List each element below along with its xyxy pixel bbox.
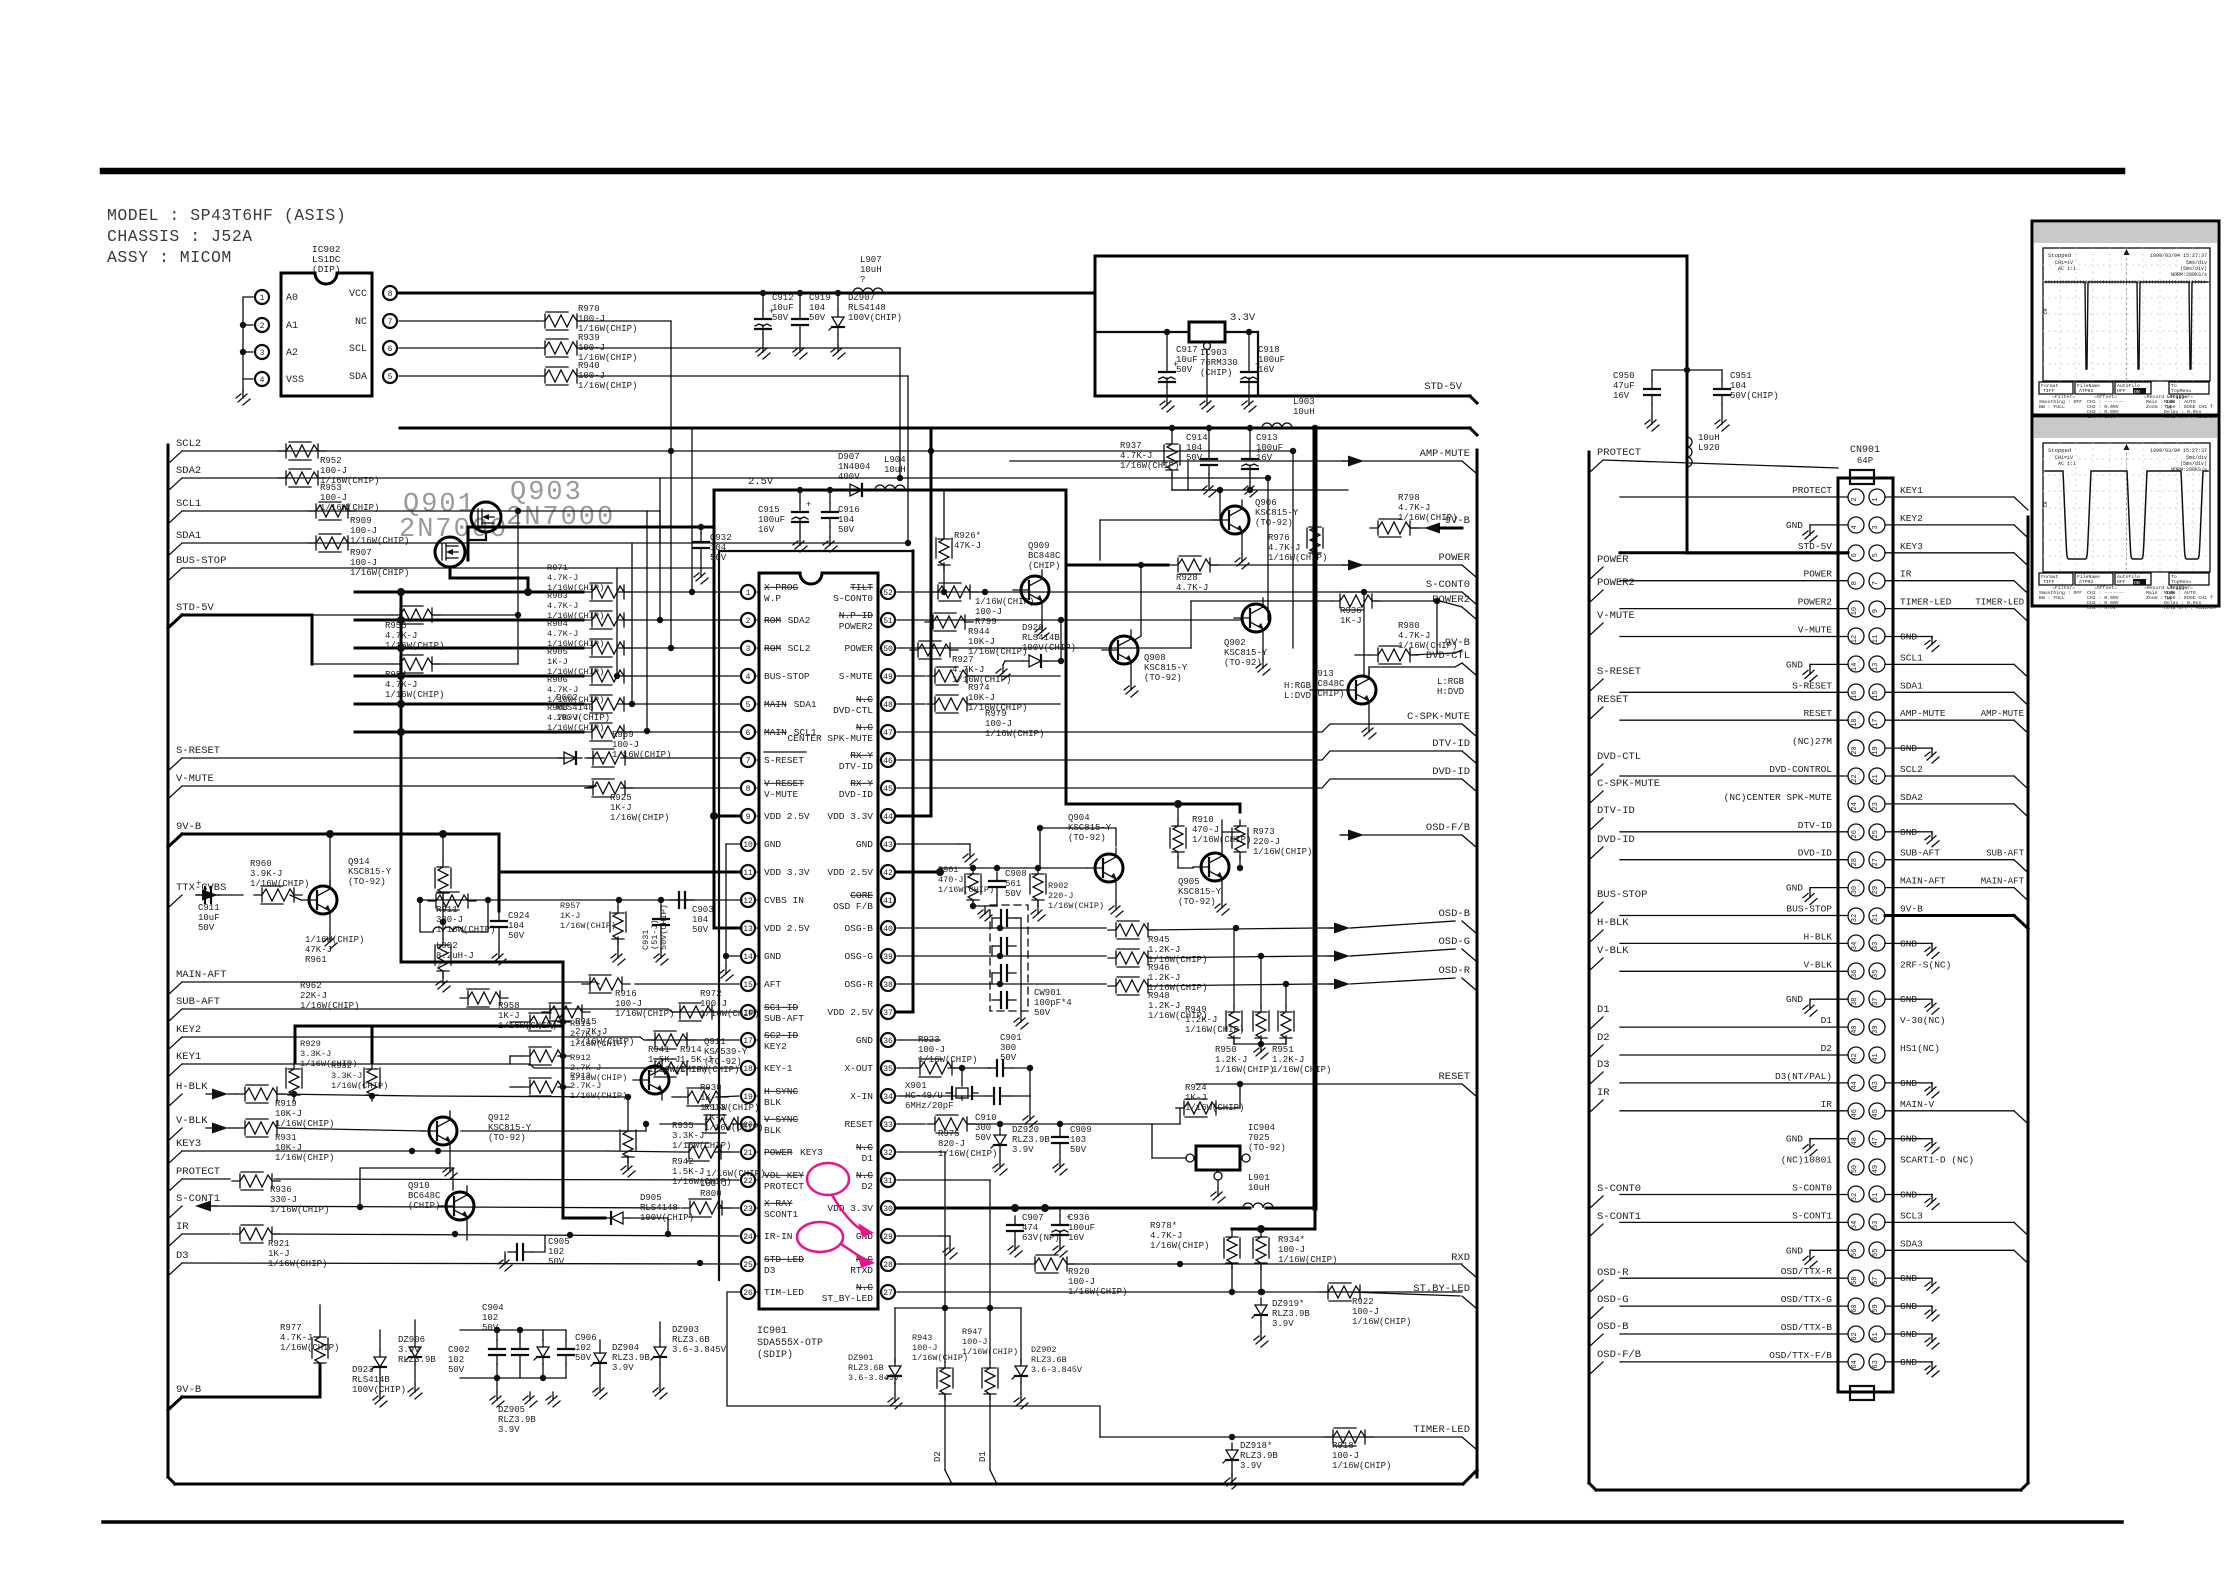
svg-text:Q912: Q912 xyxy=(488,1113,510,1123)
wire bottom frame xyxy=(175,1483,1463,1486)
svg-text:1N4004: 1N4004 xyxy=(838,462,870,472)
svg-text:16V: 16V xyxy=(1258,365,1275,375)
wire D905 feed (thick) xyxy=(563,1217,605,1220)
svg-text:1.2K-J: 1.2K-J xyxy=(1148,973,1180,983)
svg-text:1K-J: 1K-J xyxy=(700,1093,722,1103)
svg-text:BW : FULL: BW : FULL xyxy=(2039,595,2065,601)
ground C914 xyxy=(1208,482,1210,490)
wire pin49 S-MUTE xyxy=(897,675,925,677)
node BUS-STOP (left bus entry) xyxy=(168,568,182,581)
svg-text:R902: R902 xyxy=(1048,881,1068,891)
svg-text:GND: GND xyxy=(1786,659,1803,670)
node DVD-ID (bus2 entry) xyxy=(1589,847,1603,860)
svg-text:R945: R945 xyxy=(1148,935,1170,945)
svg-text:3.3V: 3.3V xyxy=(1230,312,1256,324)
resistor R938 xyxy=(1332,594,1380,608)
svg-text:100-J: 100-J xyxy=(350,526,377,536)
svg-text:DVD-ID: DVD-ID xyxy=(1432,766,1470,778)
svg-text:C936: C936 xyxy=(1068,1213,1090,1223)
capacitor C906 xyxy=(565,1340,567,1349)
svg-text:63: 63 xyxy=(1872,1360,1880,1368)
ground pin14 xyxy=(725,966,727,974)
svg-text:DZ904: DZ904 xyxy=(612,1343,639,1353)
svg-text:DVD-CTL: DVD-CTL xyxy=(1597,751,1641,763)
IC902 pin 8 xyxy=(383,286,397,300)
svg-text:R955: R955 xyxy=(385,621,407,631)
svg-text:KEY1: KEY1 xyxy=(176,1051,201,1063)
svg-text:3.9V: 3.9V xyxy=(498,1425,520,1435)
svg-text:1/16W(CHIP): 1/16W(CHIP) xyxy=(912,1353,968,1363)
ground DZ919 xyxy=(1260,1332,1262,1340)
svg-text:9V-B: 9V-B xyxy=(176,821,201,833)
svg-text:17: 17 xyxy=(743,1037,753,1046)
capacitor C907 xyxy=(1014,1216,1016,1225)
capacitor C908 xyxy=(996,872,998,881)
svg-text:ATP02: ATP02 xyxy=(2079,388,2094,394)
svg-text:50: 50 xyxy=(1851,1165,1859,1173)
node SDA1 (left bus entry) xyxy=(168,543,182,556)
svg-text:R978*: R978* xyxy=(1150,1221,1177,1231)
svg-text:50V: 50V xyxy=(548,1257,565,1267)
resistor R799 xyxy=(930,585,978,599)
resistor R974 xyxy=(927,669,975,683)
svg-text:9V-B: 9V-B xyxy=(176,1384,201,1396)
CN901 pin 46/45 row (IR / MAIN-V) xyxy=(1848,1103,1864,1119)
ground Q908 xyxy=(1130,682,1132,690)
svg-text:47: 47 xyxy=(1872,1137,1880,1145)
wire CN901 SUB-AFT xyxy=(1885,859,2014,861)
svg-text:C905: C905 xyxy=(548,1237,570,1247)
svg-text:Stopped: Stopped xyxy=(2048,447,2071,454)
IC901 pin 8 (V-MUTE) xyxy=(741,781,755,795)
svg-text:A1: A1 xyxy=(286,321,298,332)
svg-text:13: 13 xyxy=(743,925,753,934)
svg-text:R901: R901 xyxy=(938,865,958,875)
svg-text:DTV-ID: DTV-ID xyxy=(1798,820,1833,831)
resistor R927 xyxy=(910,643,958,657)
wire AMP-MUTE xyxy=(1010,460,1462,462)
svg-text:L901: L901 xyxy=(1248,1173,1270,1183)
zener DZ904 xyxy=(599,1346,601,1353)
svg-text:Q910: Q910 xyxy=(408,1181,430,1191)
svg-text:SC2-ID: SC2-ID xyxy=(764,1030,799,1041)
wire CN901 POWER2 xyxy=(1620,608,1848,610)
svg-text:A0: A0 xyxy=(286,293,298,304)
svg-text:50V: 50V xyxy=(1034,1008,1051,1018)
node D3 (left bus entry) xyxy=(168,1263,182,1276)
svg-text:1: 1 xyxy=(1872,497,1880,501)
svg-text:N.C: N.C xyxy=(856,722,873,733)
svg-text:1/16W(CHIP): 1/16W(CHIP) xyxy=(610,813,669,823)
svg-text:SDA1: SDA1 xyxy=(176,530,201,542)
capacitor C902 xyxy=(519,1340,521,1349)
wire CN901 OSD/TTX-R xyxy=(1620,1277,1848,1279)
svg-text:49: 49 xyxy=(883,673,893,682)
wire OSD-G row xyxy=(1315,955,1334,957)
svg-text:R948: R948 xyxy=(1148,991,1170,1001)
svg-text:OFF: OFF xyxy=(2117,579,2126,585)
svg-text:SDA1: SDA1 xyxy=(1900,680,1923,691)
svg-text:37: 37 xyxy=(883,1009,893,1018)
wire STD-5V branch (thick) xyxy=(182,614,312,617)
svg-text:RLS414B: RLS414B xyxy=(352,1375,390,1385)
svg-text:26: 26 xyxy=(1851,830,1859,838)
wire V-MUTE xyxy=(182,785,596,787)
svg-text:R903: R903 xyxy=(547,591,568,601)
svg-text:C908: C908 xyxy=(1005,869,1027,879)
node S-CONT0 (bus2 entry) xyxy=(1589,1196,1603,1209)
transistor Q904 xyxy=(1095,854,1123,882)
svg-text:3: 3 xyxy=(260,349,265,358)
wire pin29 GND xyxy=(897,1235,940,1237)
svg-text:OSD-B: OSD-B xyxy=(1438,908,1470,920)
svg-text:MAIN-AFT: MAIN-AFT xyxy=(176,969,226,981)
svg-text:R949: R949 xyxy=(1185,1005,1207,1015)
svg-text:561: 561 xyxy=(1005,879,1021,889)
svg-text:16V: 16V xyxy=(758,525,775,535)
svg-text:R944: R944 xyxy=(968,627,990,637)
svg-text:BC648C: BC648C xyxy=(408,1191,441,1201)
resistor R905 and pin4 stub xyxy=(355,675,583,678)
resistor R955 xyxy=(392,608,440,622)
svg-text:100-J: 100-J xyxy=(612,740,639,750)
wire cap cluster top xyxy=(460,1329,566,1331)
svg-text:?: ? xyxy=(860,275,865,285)
svg-text:1999/03/04 15:27:37: 1999/03/04 15:27:37 xyxy=(2150,448,2207,454)
svg-text:H:RGB: H:RGB xyxy=(1284,681,1312,691)
svg-text:POWER2: POWER2 xyxy=(839,621,874,632)
svg-text:KSC815-Y: KSC815-Y xyxy=(1178,887,1222,897)
svg-text:3: 3 xyxy=(746,645,751,654)
waveform scope1 (narrow spikes) xyxy=(2045,282,2208,369)
svg-text:R953: R953 xyxy=(320,483,342,493)
svg-text:KSA539-Y: KSA539-Y xyxy=(704,1047,748,1057)
svg-text:59: 59 xyxy=(1872,1304,1880,1312)
svg-text:MAIN-AFT: MAIN-AFT xyxy=(1900,876,1946,887)
ground CN901 left xyxy=(1810,998,1848,1000)
svg-text:R800: R800 xyxy=(700,1189,722,1199)
svg-text:9V-B: 9V-B xyxy=(1445,515,1470,527)
svg-text:R920: R920 xyxy=(1068,1267,1090,1277)
svg-text:OFF: OFF xyxy=(2117,388,2126,394)
svg-text:VDD 2.5V: VDD 2.5V xyxy=(827,1007,873,1018)
svg-text:50V: 50V xyxy=(1070,1145,1087,1155)
svg-text:1/16W(CHIP): 1/16W(CHIP) xyxy=(938,1149,997,1159)
CN901 pin 50/49 row ((NC)1080i / SCART1-D (NC)) xyxy=(1848,1159,1864,1175)
ground C909 xyxy=(1059,1160,1061,1168)
svg-text:26: 26 xyxy=(743,1289,753,1298)
svg-text:24: 24 xyxy=(743,1233,753,1242)
zener DZ901 xyxy=(894,1359,896,1366)
wire CN901 POWER xyxy=(1620,580,1848,582)
wire CN901 H-BLK xyxy=(1620,942,1848,944)
svg-text:28: 28 xyxy=(1851,858,1859,866)
wire TIMER-LED xyxy=(1100,1436,1462,1438)
IC901 pin 29 (GND) xyxy=(881,1229,895,1243)
svg-text:GND: GND xyxy=(1900,994,1917,1005)
svg-text:29: 29 xyxy=(883,1233,893,1242)
node 9V-B (left bus entry) xyxy=(168,834,182,847)
transistor Q903 (2N7000 FET) xyxy=(471,502,501,532)
IC901 pin 27 (ST_BY-LED) xyxy=(881,1285,895,1299)
ground CN901 left xyxy=(1810,887,1848,889)
svg-text:7: 7 xyxy=(746,757,751,766)
ground R962 xyxy=(442,977,444,985)
svg-text:GND: GND xyxy=(1786,883,1803,894)
svg-text:R969: R969 xyxy=(612,730,634,740)
svg-text:KEY3: KEY3 xyxy=(176,1138,201,1150)
svg-text:H:DVD: H:DVD xyxy=(1437,687,1464,697)
svg-text:41: 41 xyxy=(1872,1053,1880,1061)
svg-text:1/16W(CHIP): 1/16W(CHIP) xyxy=(385,690,444,700)
svg-text:(SDIP): (SDIP) xyxy=(757,1349,793,1361)
svg-text:DZ918*: DZ918* xyxy=(1240,1441,1272,1451)
svg-text:2.7K-J: 2.7K-J xyxy=(570,1029,601,1039)
svg-text:V-MUTE: V-MUTE xyxy=(1597,610,1635,622)
resistor R935 xyxy=(622,1125,634,1163)
svg-text:R905: R905 xyxy=(547,647,568,657)
svg-text:X-OUT: X-OUT xyxy=(844,1063,873,1074)
svg-text:OSD/TTX-R: OSD/TTX-R xyxy=(1781,1266,1833,1277)
svg-text:SUB-AFT: SUB-AFT xyxy=(176,996,220,1008)
svg-text:+: + xyxy=(806,500,811,510)
svg-text:50V: 50V xyxy=(838,525,855,535)
resistor R932 xyxy=(366,1063,378,1101)
resistor R941 xyxy=(647,1033,695,1047)
svg-text:8: 8 xyxy=(746,785,751,794)
svg-text:44: 44 xyxy=(883,813,893,822)
wire CN901 V-BLK xyxy=(1620,970,1848,972)
svg-text:55: 55 xyxy=(1872,1249,1880,1257)
ground C924 xyxy=(498,950,500,958)
IC902 pin 7 xyxy=(383,314,397,328)
node POWER2 (bus2 entry) xyxy=(1589,590,1603,603)
node V-BLK (left bus entry) xyxy=(168,1128,182,1141)
node KEY1 (left bus entry) xyxy=(168,1064,182,1077)
bottom border rule xyxy=(103,1520,2122,1524)
wire CN901 DVD-ID xyxy=(1620,859,1848,861)
svg-text:Q906: Q906 xyxy=(1255,498,1277,508)
wire Q905 collector xyxy=(1222,832,1240,846)
wire CN901 S-CONT1 xyxy=(1620,1221,1848,1223)
resistor R903 and pin2 stub xyxy=(355,619,583,622)
svg-text:C909: C909 xyxy=(1070,1125,1092,1135)
capacitor C917 xyxy=(1166,363,1168,372)
oscilloscope image scope1 xyxy=(2032,221,2219,415)
svg-text:S-CONT1: S-CONT1 xyxy=(1597,1211,1641,1223)
node DTV-ID (right bus exit) xyxy=(1462,751,1477,764)
svg-text:DZ920: DZ920 xyxy=(1012,1125,1039,1135)
callout arrow to pin 28 (pink) xyxy=(841,1244,862,1258)
resistor R945 xyxy=(1108,923,1156,937)
IC901 pin 18 (KEY-1) xyxy=(741,1061,755,1075)
svg-text:1/16W(CHIP): 1/16W(CHIP) xyxy=(560,921,616,931)
wire Q904 collector to R910 xyxy=(1040,828,1116,868)
svg-text:Q914: Q914 xyxy=(348,857,370,867)
resistor R933 xyxy=(680,1090,728,1104)
node RXD (right bus exit) xyxy=(1462,1265,1477,1278)
svg-text:R798: R798 xyxy=(1398,493,1420,503)
svg-text:8.2uH-J: 8.2uH-J xyxy=(436,951,474,961)
svg-text:D907: D907 xyxy=(838,452,860,462)
svg-text:Stopped: Stopped xyxy=(2048,252,2071,259)
svg-text:23: 23 xyxy=(743,1205,753,1214)
svg-text:TIFF: TIFF xyxy=(2043,388,2055,394)
svg-text:BW : FULL: BW : FULL xyxy=(2039,404,2065,410)
diode D907 xyxy=(844,489,850,491)
IC901 pin 15 (AFT) xyxy=(741,977,755,991)
svg-text:R925: R925 xyxy=(610,793,632,803)
node S-RESET (left bus entry) xyxy=(168,758,182,771)
svg-text:3.9V: 3.9V xyxy=(612,1363,634,1373)
svg-text:100pF*4: 100pF*4 xyxy=(1034,998,1072,1008)
svg-text:IR: IR xyxy=(1597,1087,1610,1099)
ground DZ902 xyxy=(1020,1394,1022,1402)
svg-text:ATP02: ATP02 xyxy=(2079,579,2094,585)
ground CN901 left xyxy=(1810,524,1848,526)
ground DZ901 xyxy=(894,1394,896,1402)
IC901 pin 33 (RESET) xyxy=(881,1117,895,1131)
svg-text:24: 24 xyxy=(1851,802,1859,810)
svg-text:3: 3 xyxy=(1872,525,1880,529)
wire pin38 OSG-R xyxy=(897,983,1106,985)
svg-text:330-J: 330-J xyxy=(436,915,463,925)
ground CN901 left xyxy=(1810,1249,1848,1251)
svg-text:1999/03/04 15:27:37: 1999/03/04 15:27:37 xyxy=(2150,253,2207,259)
svg-text:25: 25 xyxy=(743,1261,753,1270)
svg-text:KSC815-Y: KSC815-Y xyxy=(348,867,392,877)
svg-text:RLZ3.9B: RLZ3.9B xyxy=(398,1355,436,1365)
node V-MUTE (left bus entry) xyxy=(168,786,182,799)
wire pin52 S-CONT0 xyxy=(897,591,1462,593)
wire CN901 DVD-CONTROL xyxy=(1620,775,1848,777)
wire pin51 POWER2 xyxy=(897,619,1242,621)
wire 2.5V corner (thick) xyxy=(902,489,1066,492)
svg-text:R914: R914 xyxy=(680,1045,702,1055)
transistor Q901 (2N7000 FET) xyxy=(435,537,465,567)
resistor R957 xyxy=(612,907,624,945)
svg-text:(TO-92): (TO-92) xyxy=(1255,518,1293,528)
wire pin34 X-IN xyxy=(897,1095,985,1097)
node OSD-B (bus2 entry) xyxy=(1589,1334,1603,1347)
svg-text:S-CONT1: S-CONT1 xyxy=(1792,1210,1832,1221)
svg-text:4.7K-J: 4.7K-J xyxy=(385,631,417,641)
wire TIM-LED from pin26 xyxy=(727,1292,1100,1437)
svg-text:IC904: IC904 xyxy=(1248,1123,1275,1133)
svg-text:A2: A2 xyxy=(286,348,298,359)
svg-text:1/16W(CHIP): 1/16W(CHIP) xyxy=(350,536,409,546)
svg-text:1.5K-J: 1.5K-J xyxy=(648,1055,680,1065)
wire CVBS-IN net xyxy=(420,899,742,901)
svg-text:37: 37 xyxy=(1872,997,1880,1005)
svg-text:OSD/TTX-G: OSD/TTX-G xyxy=(1781,1294,1833,1305)
svg-text:45: 45 xyxy=(883,785,893,794)
svg-text:58: 58 xyxy=(1851,1276,1859,1284)
resistor R936 xyxy=(232,1174,280,1188)
svg-text:2.7K-J: 2.7K-J xyxy=(570,1081,601,1091)
capacitor C950 xyxy=(1651,380,1653,389)
node ST.BY-LED (right bus exit) xyxy=(1462,1296,1477,1309)
svg-text:R927: R927 xyxy=(952,655,974,665)
svg-text:2: 2 xyxy=(746,617,751,626)
svg-text:L907: L907 xyxy=(860,255,882,265)
svg-text:(TO-92): (TO-92) xyxy=(1178,897,1216,907)
CN901 pin 38/37 row (GND / GND) xyxy=(1848,991,1864,1007)
svg-text:R954: R954 xyxy=(385,670,407,680)
wire R973/R910 base rail xyxy=(1239,804,1242,812)
IC901 pin 28 (RTXD) xyxy=(881,1257,895,1271)
resistor R931 xyxy=(237,1121,285,1135)
svg-text:SDA: SDA xyxy=(349,372,367,383)
svg-text:L920: L920 xyxy=(1698,443,1720,453)
svg-text:V-30(NC): V-30(NC) xyxy=(1900,1015,1946,1026)
wire pin43 GND xyxy=(897,843,960,845)
svg-text:29: 29 xyxy=(1872,886,1880,894)
svg-text:470-J: 470-J xyxy=(938,875,964,885)
waveform scope2 (wide pulses) xyxy=(2045,471,2208,559)
svg-text:GND: GND xyxy=(1900,938,1917,949)
wire Q905 base xyxy=(1178,867,1193,869)
svg-text:RESET: RESET xyxy=(844,1119,873,1130)
svg-text:GND: GND xyxy=(1900,743,1917,754)
svg-text:10uF: 10uF xyxy=(1176,355,1198,365)
svg-text:100-J: 100-J xyxy=(700,1179,727,1189)
svg-text:7: 7 xyxy=(388,318,393,327)
svg-text:RESET: RESET xyxy=(1438,1071,1470,1083)
svg-text:10: 10 xyxy=(743,841,753,850)
svg-text:POWER: POWER xyxy=(1803,569,1832,580)
resistor R909 xyxy=(308,504,356,518)
svg-text:1/16W(CHIP): 1/16W(CHIP) xyxy=(436,925,495,935)
svg-text:1/16W(CHIP): 1/16W(CHIP) xyxy=(250,879,309,889)
svg-text:2RF-S(NC): 2RF-S(NC) xyxy=(1900,959,1951,970)
svg-text:D1: D1 xyxy=(978,1451,988,1462)
ground CN901 right xyxy=(1885,1138,1920,1140)
svg-text:RLZ3.9B: RLZ3.9B xyxy=(612,1353,650,1363)
resistor R939 xyxy=(537,341,585,355)
IC901 pin 26 (TIM-LED) xyxy=(741,1285,755,1299)
diode D905 xyxy=(605,1217,611,1219)
svg-text:KEY2: KEY2 xyxy=(1900,513,1923,524)
wire POWER2 row xyxy=(1191,600,1332,602)
capacitor C913 xyxy=(1249,450,1251,459)
svg-text:3.6-3.845V: 3.6-3.845V xyxy=(848,1373,900,1383)
svg-text:10uH: 10uH xyxy=(884,465,906,475)
wire IC902 input bus xyxy=(243,297,253,379)
svg-text:D920: D920 xyxy=(1022,623,1044,633)
svg-text:3.6-3.845V: 3.6-3.845V xyxy=(672,1345,727,1355)
svg-text:9V-B: 9V-B xyxy=(1900,904,1923,915)
svg-text:CH: CH xyxy=(2043,308,2049,314)
node 9V-B (right bus exit) xyxy=(0,0,1,1)
svg-text:N.C: N.C xyxy=(856,694,873,705)
ground Q910 xyxy=(466,1227,468,1240)
svg-text:TopMenu: TopMenu xyxy=(2171,579,2191,585)
svg-text:BUS-STOP: BUS-STOP xyxy=(1786,904,1832,915)
wire CN901 V-MUTE xyxy=(1620,636,1848,638)
svg-text:19: 19 xyxy=(1872,746,1880,754)
transistor Q910 xyxy=(446,1192,474,1220)
wire STD-5V distribution (thick) xyxy=(400,427,1470,430)
wire CN901 SDA3 xyxy=(1885,1249,2014,1251)
svg-text:RLS4148: RLS4148 xyxy=(848,303,886,313)
wire KEY1 xyxy=(182,1063,530,1065)
svg-text:IR: IR xyxy=(1900,569,1912,580)
svg-text:OSD-G: OSD-G xyxy=(1438,936,1470,948)
svg-text:C916: C916 xyxy=(838,505,860,515)
svg-text:21: 21 xyxy=(1872,774,1880,782)
wire STD-5V to CN901 (thick) xyxy=(1687,552,1845,555)
